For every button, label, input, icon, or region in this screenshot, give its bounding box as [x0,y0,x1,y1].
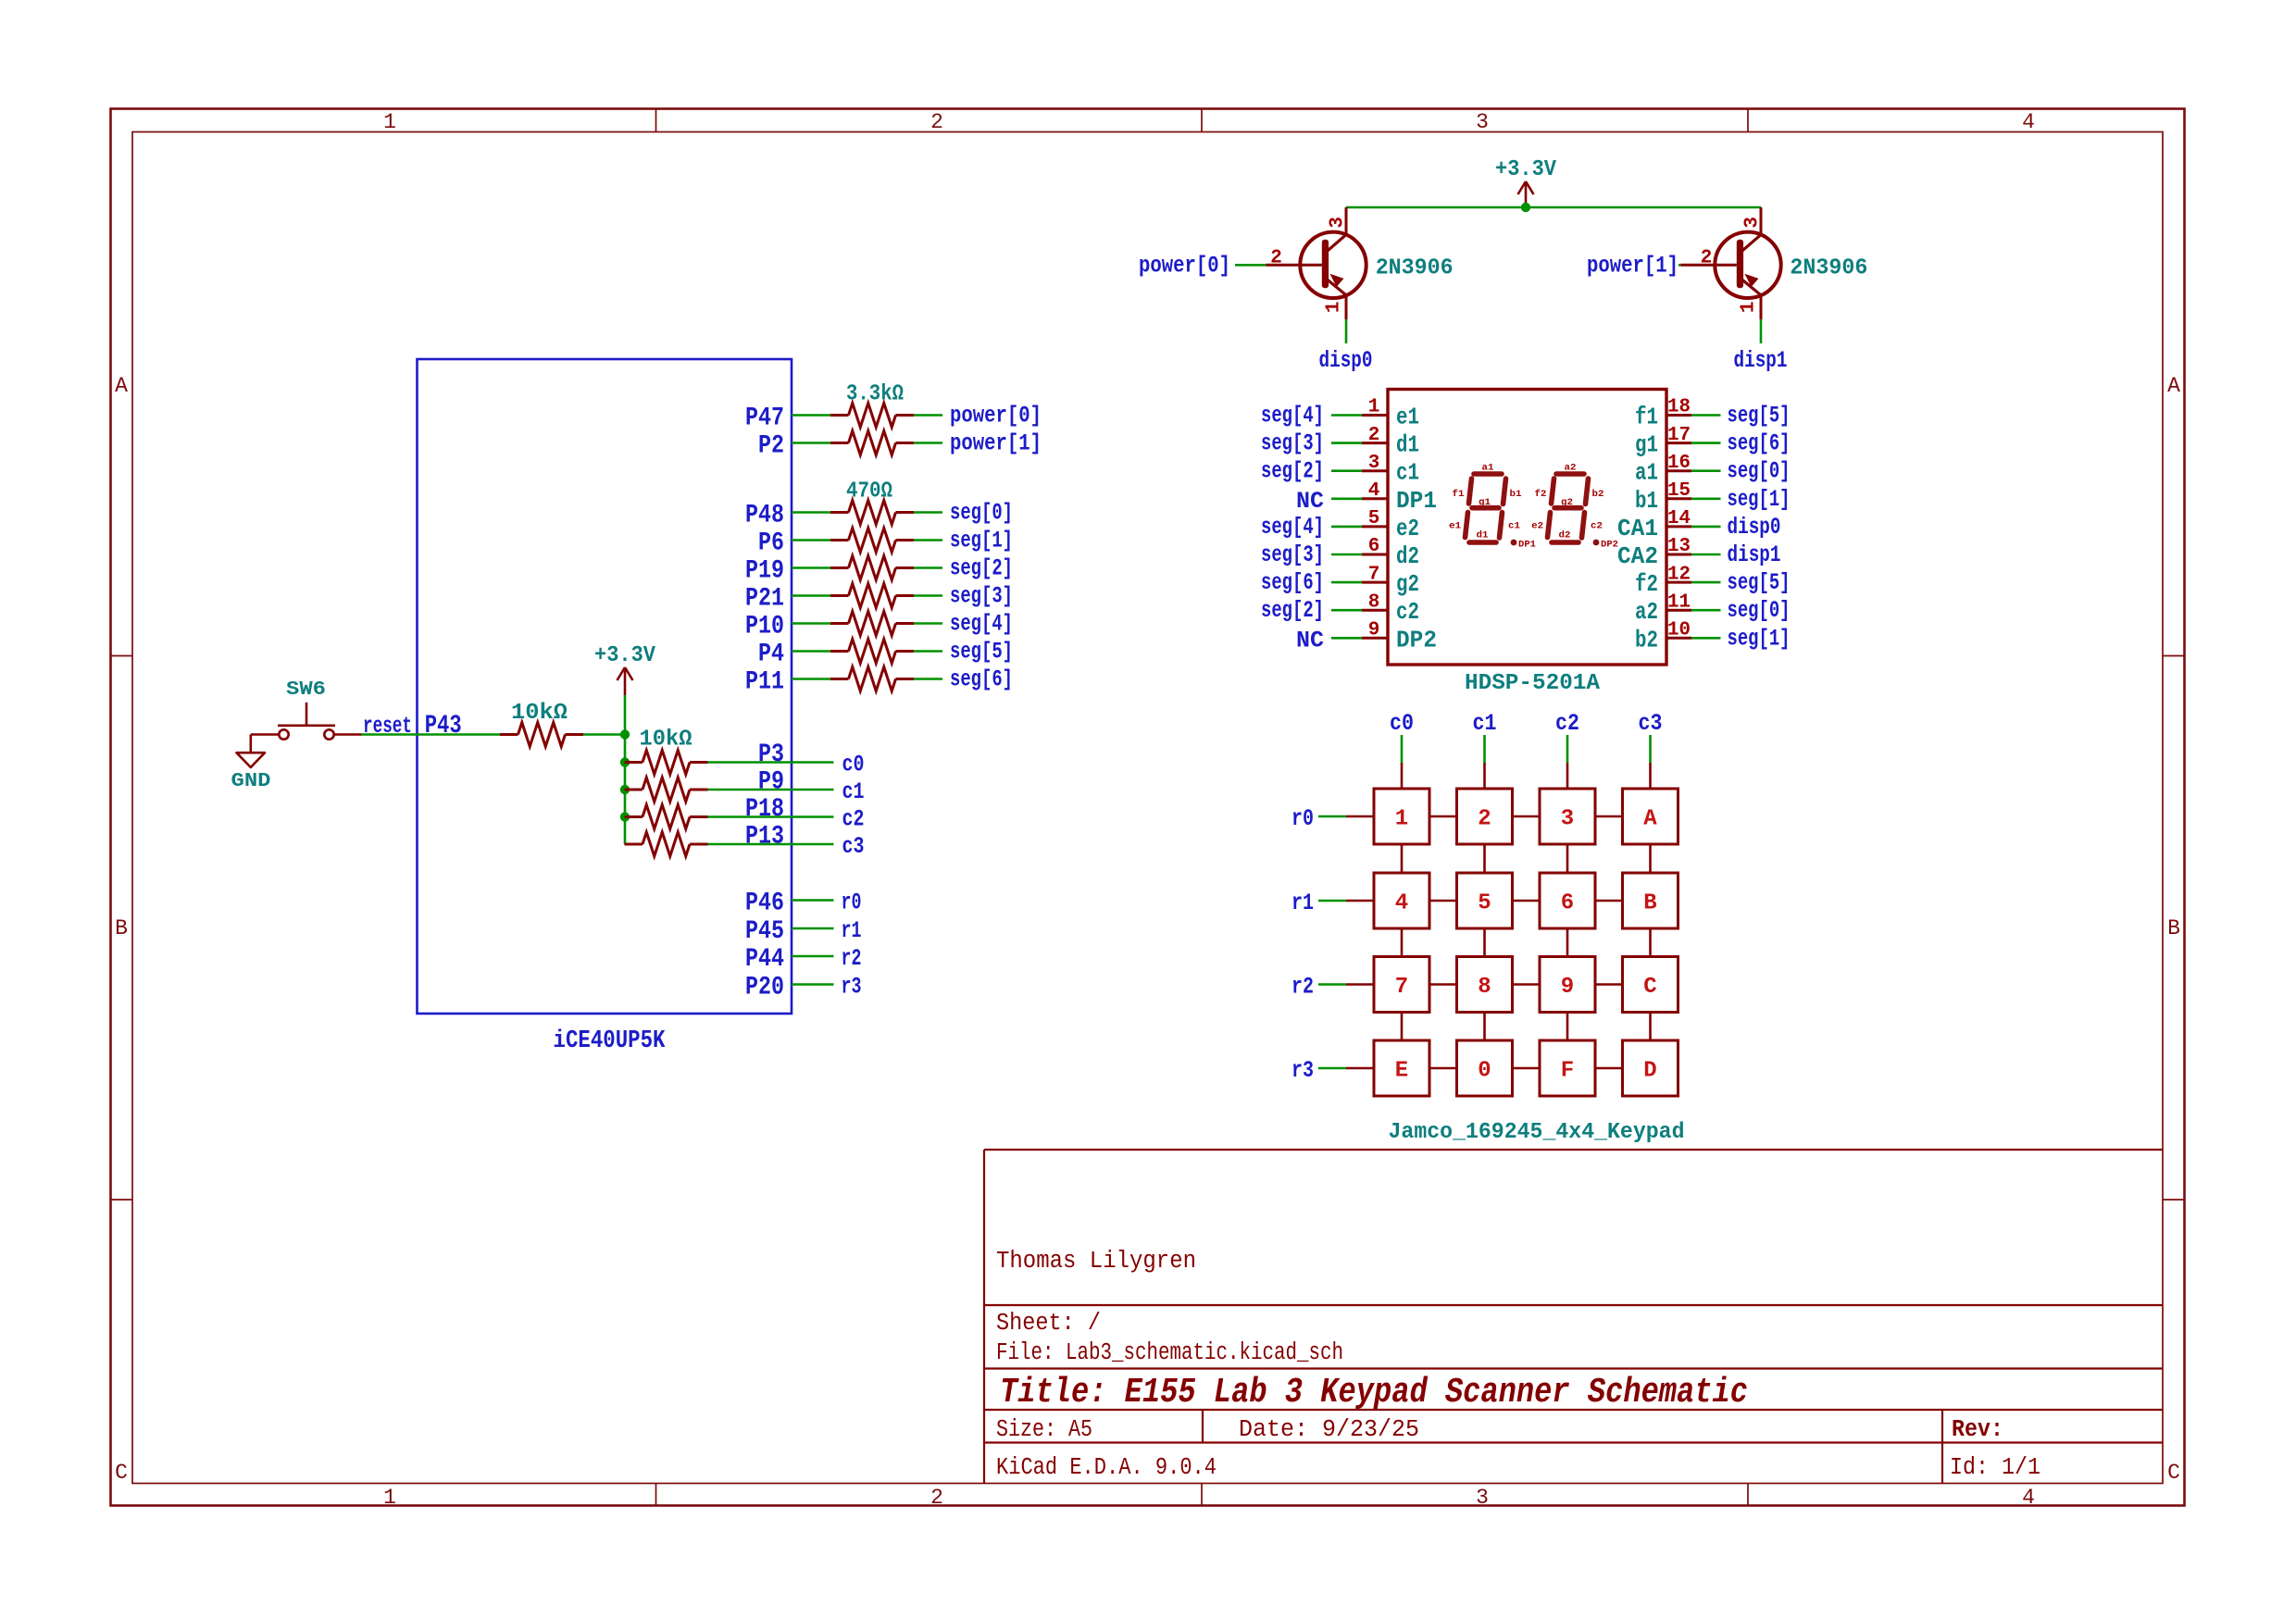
svg-text:r3: r3 [842,974,862,1001]
svg-text:3: 3 [1368,453,1380,474]
svg-text:File: Lab3_schematic.kicad_sch: File: Lab3_schematic.kicad_sch [996,1339,1343,1366]
svg-text:4: 4 [1395,891,1408,916]
svg-text:seg[3]: seg[3] [950,583,1013,610]
svg-text:d1: d1 [1477,530,1489,541]
svg-text:power[0]: power[0] [1139,252,1230,279]
svg-text:0: 0 [1478,1059,1491,1084]
svg-text:CA2: CA2 [1617,542,1658,570]
svg-text:b1: b1 [1510,489,1522,500]
svg-text:seg[3]: seg[3] [1261,430,1324,457]
svg-text:P4: P4 [758,641,784,669]
svg-text:P20: P20 [745,974,784,1002]
svg-text:16: 16 [1667,453,1691,474]
svg-text:r0: r0 [842,890,862,916]
svg-text:P43: P43 [425,712,462,741]
svg-text:DP2: DP2 [1601,540,1618,551]
svg-text:iCE40UP5K: iCE40UP5K [554,1027,667,1055]
svg-text:CA1: CA1 [1617,515,1658,542]
svg-text:seg[3]: seg[3] [1261,541,1324,568]
svg-text:P2: P2 [758,432,784,461]
svg-text:e1: e1 [1449,521,1461,532]
svg-text:3.3kΩ: 3.3kΩ [846,382,904,407]
svg-text:DP1: DP1 [1518,540,1536,551]
svg-text:12: 12 [1667,564,1691,585]
svg-text:disp1: disp1 [1728,541,1781,568]
svg-text:P19: P19 [745,557,784,586]
svg-text:1: 1 [1368,397,1380,418]
svg-text:B: B [2167,916,2180,940]
svg-text:c1: c1 [1396,459,1419,487]
svg-text:P46: P46 [745,890,784,918]
svg-text:2: 2 [1478,807,1491,832]
svg-text:c1: c1 [1508,521,1520,532]
svg-text:7: 7 [1368,564,1380,585]
svg-text:g2: g2 [1561,497,1573,508]
svg-text:Size: A5: Size: A5 [996,1416,1092,1443]
svg-text:P47: P47 [745,404,784,433]
svg-text:C: C [115,1461,128,1485]
svg-text:seg[6]: seg[6] [950,666,1013,693]
svg-text:disp1: disp1 [1734,347,1788,374]
svg-text:f2: f2 [1635,570,1658,598]
svg-text:Sheet: /: Sheet: / [996,1310,1101,1337]
svg-text:f1: f1 [1453,489,1465,500]
svg-text:seg[0]: seg[0] [950,500,1013,527]
svg-text:5: 5 [1478,891,1491,916]
svg-text:power[1]: power[1] [1587,252,1678,279]
svg-text:P3: P3 [758,741,784,769]
svg-text:9: 9 [1368,620,1380,641]
svg-text:seg[0]: seg[0] [1728,597,1791,624]
svg-text:P44: P44 [745,945,784,974]
svg-text:d2: d2 [1396,542,1419,570]
svg-text:a2: a2 [1635,598,1658,626]
svg-text:P13: P13 [745,823,784,852]
svg-text:disp0: disp0 [1728,514,1781,541]
svg-text:1: 1 [383,110,396,134]
svg-text:c0: c0 [1390,710,1414,737]
svg-text:P6: P6 [758,529,784,558]
svg-text:NC: NC [1296,627,1324,653]
svg-text:seg[5]: seg[5] [950,639,1013,666]
svg-text:r3: r3 [1291,1057,1314,1084]
svg-text:Thomas Lilygren: Thomas Lilygren [996,1248,1196,1275]
svg-text:4: 4 [2022,1486,2035,1510]
svg-text:11: 11 [1667,591,1691,613]
svg-text:seg[4]: seg[4] [1261,514,1324,541]
svg-text:c3: c3 [842,833,865,860]
svg-text:seg[2]: seg[2] [950,555,1013,582]
svg-text:d2: d2 [1559,530,1571,541]
svg-text:b1: b1 [1635,487,1658,515]
svg-text:Jamco_169245_4x4_Keypad: Jamco_169245_4x4_Keypad [1389,1120,1685,1145]
svg-text:E: E [1395,1059,1408,1084]
svg-text:A: A [2167,374,2180,398]
svg-text:F: F [1561,1059,1574,1084]
svg-text:seg[4]: seg[4] [950,611,1013,638]
svg-text:power[0]: power[0] [950,403,1042,429]
svg-text:B: B [1643,891,1656,916]
svg-text:P45: P45 [745,917,784,946]
svg-text:r2: r2 [1291,974,1314,1001]
svg-text:seg[6]: seg[6] [1261,569,1324,596]
svg-text:c1: c1 [842,778,865,805]
svg-text:17: 17 [1667,425,1691,446]
svg-text:4: 4 [2022,110,2035,134]
svg-text:P11: P11 [745,668,784,697]
svg-text:r2: r2 [842,945,862,972]
svg-text:c2: c2 [1591,521,1603,532]
svg-text:6: 6 [1368,536,1380,557]
svg-text:C: C [2167,1461,2180,1485]
svg-text:e2: e2 [1531,521,1543,532]
svg-text:2N3906: 2N3906 [1790,255,1867,280]
svg-text:5: 5 [1368,508,1380,529]
svg-text:seg[1]: seg[1] [1728,625,1791,652]
svg-text:18: 18 [1667,397,1691,418]
svg-text:seg[4]: seg[4] [1261,403,1324,429]
svg-text:4: 4 [1368,480,1380,502]
svg-text:D: D [1643,1059,1656,1084]
svg-text:seg[6]: seg[6] [1728,430,1791,457]
svg-text:9: 9 [1561,975,1574,1000]
svg-text:Date: 9/23/25: Date: 9/23/25 [1239,1416,1419,1443]
svg-text:2: 2 [1270,247,1282,268]
svg-text:Title: E155 Lab 3 Keypad Scann: Title: E155 Lab 3 Keypad Scanner Schemat… [1000,1373,1748,1413]
svg-text:disp0: disp0 [1319,347,1373,374]
svg-text:C: C [1643,975,1656,1000]
svg-text:6: 6 [1561,891,1574,916]
svg-text:r0: r0 [1291,805,1314,832]
svg-text:1: 1 [383,1486,396,1510]
svg-text:13: 13 [1667,536,1691,557]
svg-text:B: B [115,916,128,940]
svg-text:power[1]: power[1] [950,430,1042,457]
svg-text:P10: P10 [745,613,784,641]
svg-text:3: 3 [1476,110,1489,134]
svg-text:A: A [1643,807,1657,832]
svg-text:3: 3 [1742,217,1764,229]
svg-text:DP2: DP2 [1396,626,1437,653]
svg-text:e1: e1 [1396,404,1419,431]
svg-text:1: 1 [1739,301,1760,313]
svg-text:P18: P18 [745,795,784,824]
svg-text:g1: g1 [1635,431,1658,459]
svg-text:seg[5]: seg[5] [1728,403,1791,429]
svg-text:a2: a2 [1565,463,1577,474]
svg-text:+3.3V: +3.3V [1495,157,1557,182]
svg-text:a1: a1 [1635,459,1658,487]
svg-text:GND: GND [231,771,271,792]
svg-text:3: 3 [1561,807,1574,832]
svg-text:14: 14 [1667,508,1691,529]
svg-text:10: 10 [1667,620,1691,641]
svg-text:d1: d1 [1396,431,1419,459]
svg-text:10kΩ: 10kΩ [511,701,568,726]
svg-text:DP1: DP1 [1396,487,1437,515]
svg-text:2: 2 [930,1486,943,1510]
svg-text:c2: c2 [842,806,865,833]
svg-text:2: 2 [930,110,943,134]
svg-text:seg[2]: seg[2] [1261,597,1324,624]
svg-text:b2: b2 [1635,626,1658,653]
svg-text:7: 7 [1395,975,1408,1000]
svg-text:b2: b2 [1592,489,1604,500]
svg-text:c0: c0 [842,752,865,778]
svg-text:P9: P9 [758,768,784,797]
svg-text:470Ω: 470Ω [846,479,892,504]
svg-text:c1: c1 [1473,710,1497,737]
svg-text:seg[1]: seg[1] [1728,486,1791,513]
svg-text:15: 15 [1667,480,1691,502]
svg-text:NC: NC [1296,488,1324,515]
svg-text:a1: a1 [1482,463,1494,474]
svg-text:2: 2 [1368,425,1380,446]
svg-text:2N3906: 2N3906 [1376,255,1454,280]
svg-text:P48: P48 [745,502,784,530]
svg-text:A: A [115,374,128,398]
svg-text:g1: g1 [1479,497,1491,508]
svg-text:1: 1 [1395,807,1408,832]
svg-text:seg[5]: seg[5] [1728,569,1791,596]
svg-text:r1: r1 [1291,890,1314,916]
svg-text:r1: r1 [842,917,862,944]
svg-text:f2: f2 [1535,489,1547,500]
svg-text:c3: c3 [1639,710,1663,737]
svg-text:seg[2]: seg[2] [1261,458,1324,485]
svg-text:f1: f1 [1635,404,1658,431]
svg-text:Id: 1/1: Id: 1/1 [1950,1454,2040,1481]
svg-text:c2: c2 [1555,710,1579,737]
svg-text:e2: e2 [1396,515,1419,542]
svg-text:P21: P21 [745,585,784,614]
svg-text:Rev:: Rev: [1952,1416,2003,1443]
svg-text:3: 3 [1328,217,1349,229]
svg-text:seg[1]: seg[1] [950,528,1013,554]
svg-text:1: 1 [1324,301,1345,313]
svg-text:8: 8 [1368,591,1380,613]
svg-text:SW6: SW6 [286,679,326,701]
svg-text:2: 2 [1701,247,1713,268]
svg-text:KiCad E.D.A. 9.0.4: KiCad E.D.A. 9.0.4 [996,1454,1217,1481]
svg-text:c2: c2 [1396,598,1419,626]
svg-text:g2: g2 [1396,570,1419,598]
svg-text:HDSP-5201A: HDSP-5201A [1465,671,1601,696]
svg-text:8: 8 [1478,975,1491,1000]
svg-text:+3.3V: +3.3V [594,643,656,668]
svg-text:3: 3 [1476,1486,1489,1510]
svg-text:seg[0]: seg[0] [1728,458,1791,485]
